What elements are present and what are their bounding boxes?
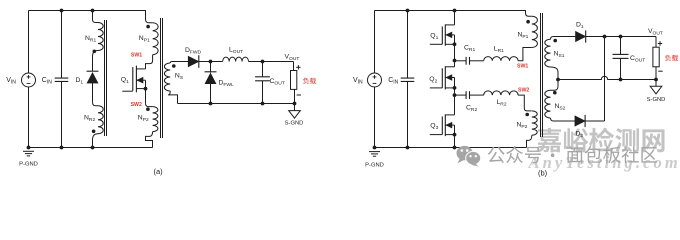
svg-text:S-GND: S-GND — [647, 97, 666, 103]
svg-text:SW1: SW1 — [517, 64, 528, 70]
svg-text:SW2: SW2 — [131, 102, 142, 108]
svg-text:S-GND: S-GND — [285, 120, 304, 126]
svg-text:P-GND: P-GND — [19, 162, 38, 168]
svg-text:SW1: SW1 — [131, 53, 142, 59]
svg-text:P-GND: P-GND — [365, 162, 384, 168]
svg-text:(a): (a) — [154, 167, 164, 176]
svg-text:SW2: SW2 — [518, 88, 529, 94]
